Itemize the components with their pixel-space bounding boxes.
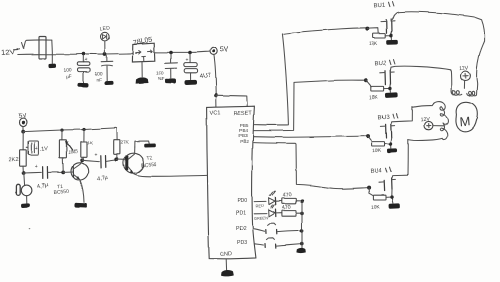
svg-text:100: 100 <box>63 67 72 74</box>
svg-text:12V: 12V <box>1 47 15 57</box>
svg-text:10K: 10K <box>372 148 382 155</box>
wire return drop to ground <box>51 40 54 63</box>
svg-text:+: + <box>95 153 98 159</box>
junction (T2 base) <box>115 158 119 162</box>
capacitor C2 100nF <box>101 56 113 81</box>
junction (T1 base) <box>61 171 65 175</box>
junction (bus PD0) <box>300 199 304 203</box>
value label 100nF <box>156 71 165 83</box>
transistor T2 BC550 <box>117 147 157 173</box>
capacitor C4 4u7 electrolytic <box>184 54 198 80</box>
wire to RESET pin <box>216 95 247 106</box>
junction (amp rail) <box>21 130 25 134</box>
wire to VCC pin <box>215 95 217 107</box>
svg-text:RESET: RESET <box>233 110 252 117</box>
junction (C4 top) <box>188 51 192 55</box>
svg-text:4U7: 4U7 <box>199 72 212 80</box>
motor M1 <box>456 102 477 132</box>
junction (LED / C2) <box>103 52 107 56</box>
ground (regulator) <box>136 77 149 83</box>
wire 5V to IC VCC <box>214 56 216 95</box>
button BU2 <box>364 60 398 101</box>
wire +12V rail <box>18 53 133 54</box>
junction (bus PD3) <box>300 242 304 246</box>
pin label RESET <box>233 110 252 117</box>
ground (C4) <box>185 80 197 85</box>
svg-text:PB2: PB2 <box>240 138 249 143</box>
wire PD1 <box>254 213 266 215</box>
wire 5V rail after regulator <box>155 51 210 54</box>
IC IC1 body <box>207 106 256 259</box>
junction (C1 top) <box>82 52 86 56</box>
svg-text:PB3: PB3 <box>239 133 248 138</box>
junction (C3 top) <box>169 51 173 55</box>
svg-text:.1V: .1V <box>39 146 48 153</box>
wire T2 emitter to IC input <box>134 174 207 177</box>
junction (bus PD1) <box>300 212 304 216</box>
wire amp 5V rail <box>23 128 116 132</box>
svg-text:LED: LED <box>99 25 110 32</box>
value label 100nF <box>95 71 103 83</box>
svg-text:BU4: BU4 <box>370 168 383 175</box>
annotation box +1V at mic node <box>26 141 48 155</box>
wire PB5 to BU1 <box>254 28 367 125</box>
wire PB3 to BU3 <box>254 136 367 137</box>
junction (bus PD2) <box>300 229 304 233</box>
ground (IC) <box>221 270 234 276</box>
button BU4 <box>367 167 400 211</box>
svg-text:100: 100 <box>156 71 164 77</box>
svg-text:+: + <box>85 57 88 63</box>
jumper JP2 <box>265 238 301 248</box>
pin label VCC <box>209 110 220 116</box>
svg-text:470: 470 <box>282 192 292 199</box>
svg-text:10K: 10K <box>369 94 379 101</box>
svg-text:470: 470 <box>281 204 291 211</box>
ground (C2) <box>104 81 113 85</box>
resistor 27K <box>114 128 130 158</box>
svg-text:T2: T2 <box>146 155 152 161</box>
svg-text:VC1: VC1 <box>209 110 220 116</box>
capacitor C5 4u7 coupling <box>24 164 62 190</box>
svg-text:+: + <box>35 164 38 170</box>
LED D1 indicator <box>99 25 110 53</box>
ground (PD bus) <box>296 248 305 253</box>
svg-text:+: + <box>35 146 38 152</box>
svg-text:5V: 5V <box>219 44 229 53</box>
svg-text:M: M <box>459 114 471 130</box>
pin label PD1 <box>236 211 246 217</box>
ground (mic) <box>21 203 30 208</box>
pin label PD0 <box>237 198 247 204</box>
resistor 470 (PD1) <box>281 204 302 216</box>
wire IC GND <box>225 259 227 271</box>
wire 12V return (top) with V kink <box>22 40 52 49</box>
value label 4u7 <box>199 72 212 80</box>
wire BU4 to relay coil bottom <box>392 140 408 178</box>
svg-text:RED: RED <box>255 203 264 208</box>
svg-text:µF: µF <box>66 74 73 81</box>
transistor T1 BC550 <box>53 161 88 203</box>
svg-text:NF: NF <box>159 76 165 82</box>
pin label GND <box>219 251 232 258</box>
svg-text:PD0: PD0 <box>237 198 247 204</box>
button BU3 <box>366 114 398 155</box>
wire PD3 <box>254 244 263 245</box>
svg-text:1M5: 1M5 <box>68 149 78 156</box>
svg-text:BU3: BU3 <box>377 115 390 122</box>
label GREEN <box>254 216 268 221</box>
12V node (relay) <box>420 117 444 130</box>
svg-text:10K: 10K <box>368 41 378 48</box>
pin label PB4 <box>239 128 248 133</box>
12V input label <box>1 47 15 57</box>
resistor 1K <box>81 130 94 161</box>
svg-text:PD2: PD2 <box>236 226 246 232</box>
pin label PD3 <box>237 240 247 246</box>
pin label PD2 <box>236 226 246 232</box>
svg-text:PD1: PD1 <box>236 211 246 217</box>
svg-text:BC550: BC550 <box>141 162 157 169</box>
value label 100uF <box>63 67 72 80</box>
wire PB2 to BU4 <box>254 143 368 189</box>
svg-text:1K: 1K <box>87 140 94 146</box>
regulator U2 78L05 <box>132 36 154 76</box>
svg-text:27K: 27K <box>121 140 130 146</box>
pin label PB5 <box>240 123 249 128</box>
button BU1 <box>365 2 397 48</box>
label RED <box>255 203 264 208</box>
12V input arrow <box>14 47 20 50</box>
ground (input return) <box>48 64 56 69</box>
junction (1K top) <box>82 128 85 131</box>
wire BU3 to relay coil top <box>391 107 413 124</box>
svg-text:GND: GND <box>219 251 232 258</box>
capacitor C3 100nF <box>165 54 177 78</box>
wire ground bus <box>301 201 303 248</box>
resistor 1M5 trimmer <box>59 130 78 171</box>
wire T2 collector to output tab <box>135 141 149 147</box>
junction (VCC/RESET split) <box>214 93 218 97</box>
ground (T1 emitter) <box>74 203 87 208</box>
ground (C3) <box>165 79 177 84</box>
relay coil body <box>408 102 448 141</box>
node 5V (regulator output) <box>210 44 229 55</box>
junction (mic node) <box>22 171 26 175</box>
LED D2 red <box>269 191 282 205</box>
resistor 470 (PD0) <box>282 192 302 204</box>
LED D3 green <box>268 205 281 217</box>
motor coil windings <box>451 84 477 95</box>
stray mark <box>28 228 30 230</box>
pin label PB2 <box>240 138 249 143</box>
junction (1M5 top) <box>60 129 63 132</box>
wire PD0 <box>254 200 266 202</box>
12V node (motor supply) <box>458 65 469 88</box>
wire PB4 to BU2 <box>254 80 366 131</box>
svg-text:100: 100 <box>95 71 103 77</box>
junction (T1 collector) <box>80 158 84 162</box>
output terminal (bold tab) <box>144 143 156 147</box>
microphone MIC1 <box>16 173 32 203</box>
jumper JP1 <box>266 224 301 234</box>
svg-text:GREEN: GREEN <box>254 216 268 221</box>
svg-text:PD3: PD3 <box>237 240 247 246</box>
svg-text:10K: 10K <box>371 204 381 211</box>
node 5V (amp supply) <box>18 113 27 131</box>
resistor 2K2 <box>9 132 26 172</box>
wire PD2 <box>254 229 264 231</box>
capacitor C1 100uF electrolytic <box>77 56 90 83</box>
capacitor C6 4u7 coupling <box>82 153 115 183</box>
ground (C1) <box>77 83 88 88</box>
svg-text:nF: nF <box>97 77 103 83</box>
svg-text:BU2: BU2 <box>374 61 387 68</box>
wire BU1 to motor coil (right) <box>392 12 484 84</box>
svg-text:2K2: 2K2 <box>9 157 19 163</box>
connector J1 (12V input) <box>39 37 46 59</box>
svg-text:BU1: BU1 <box>373 3 386 10</box>
pin label PB3 <box>239 133 248 138</box>
wire BU2 to motor coil (left) <box>390 66 451 89</box>
